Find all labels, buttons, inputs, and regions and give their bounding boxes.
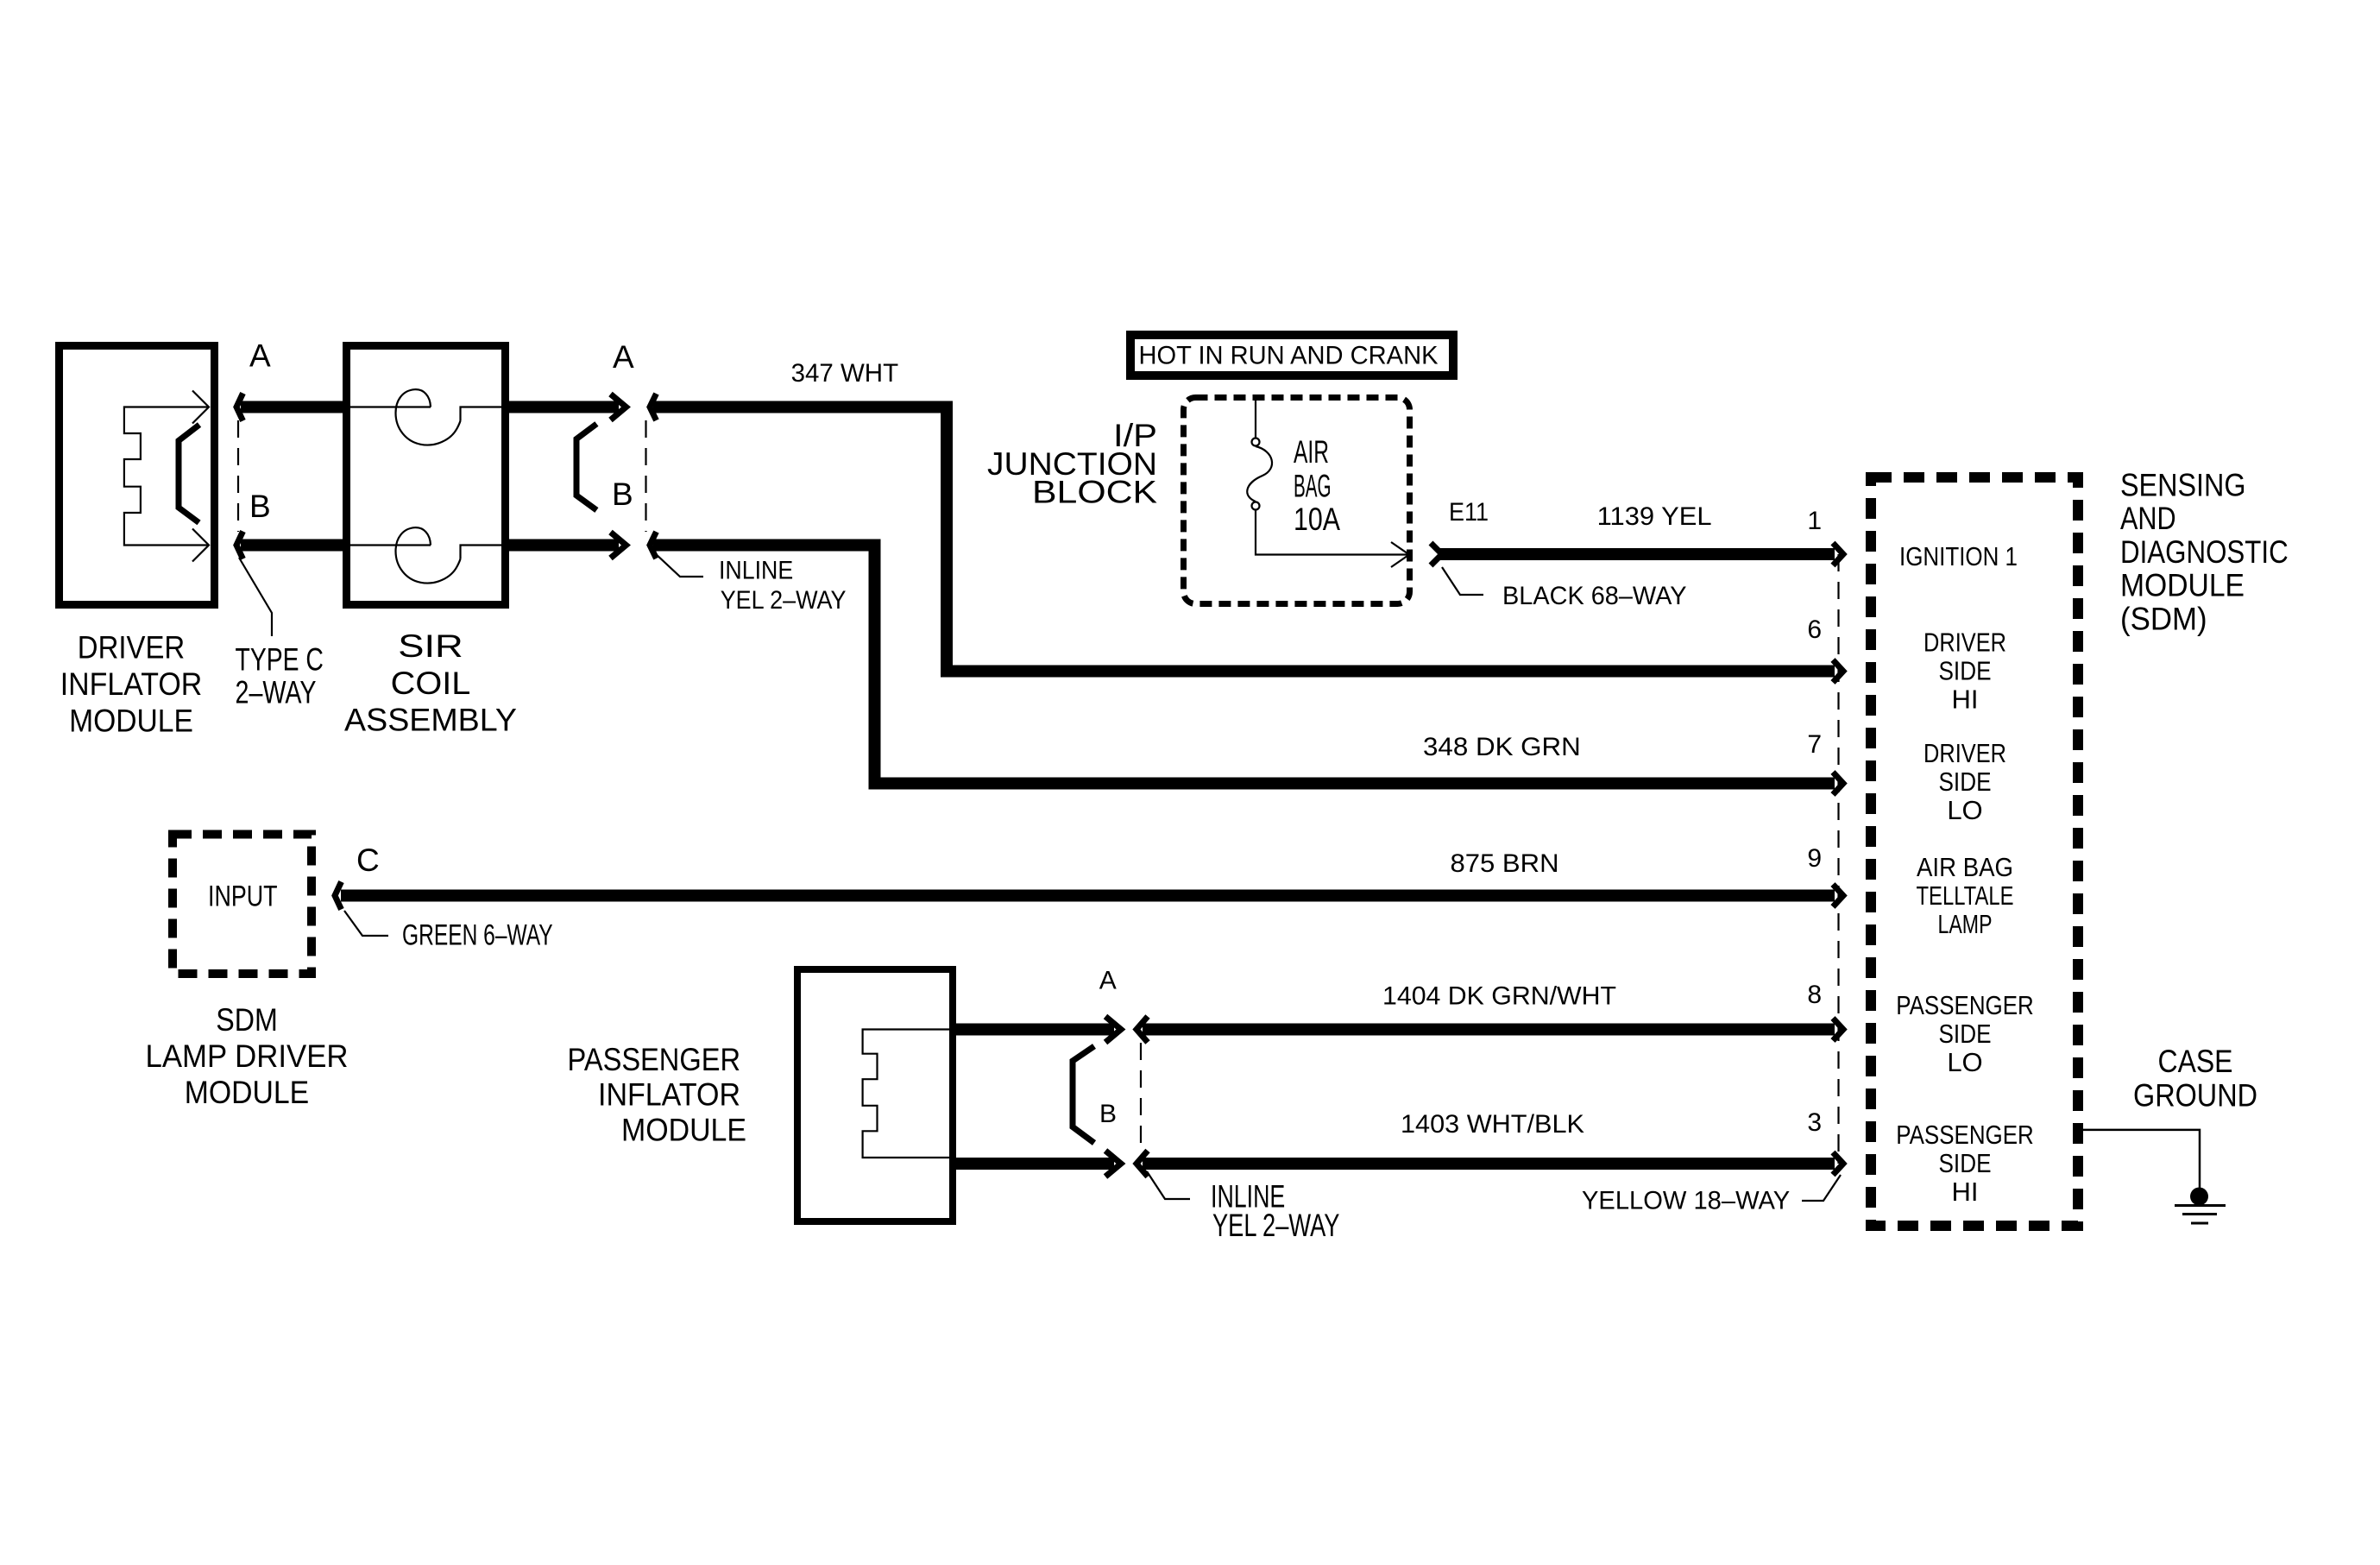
passenger inline chevron A left <box>1105 1017 1121 1043</box>
wire passenger B to inline <box>952 1158 1114 1170</box>
svg-text:348 DK GRN: 348 DK GRN <box>1423 733 1581 761</box>
twisted pair bracket passenger <box>1073 1046 1094 1143</box>
svg-text:MODULE: MODULE <box>2120 568 2245 603</box>
svg-text:ASSEMBLY: ASSEMBLY <box>344 703 517 738</box>
svg-text:CASE: CASE <box>2158 1044 2233 1079</box>
svg-text:MODULE: MODULE <box>621 1113 746 1148</box>
callout line black 68-way <box>1442 567 1483 595</box>
svg-text:LAMP: LAMP <box>1938 909 1993 939</box>
SDM lamp driver module dashed box <box>173 835 312 975</box>
svg-text:C: C <box>356 842 380 878</box>
SIR coil assembly box <box>347 346 506 605</box>
svg-text:LAMP DRIVER: LAMP DRIVER <box>146 1038 349 1074</box>
callout line yellow 18-way <box>1802 1175 1841 1201</box>
hot in run and crank box <box>1130 335 1453 375</box>
svg-text:IGNITION 1: IGNITION 1 <box>1899 541 2018 571</box>
wire driver A to SIR <box>241 401 343 413</box>
wire 1403 WHT/BLK <box>1143 1158 1835 1170</box>
svg-text:PASSENGER: PASSENGER <box>1896 990 2034 1020</box>
wire driver B to SIR <box>241 540 343 552</box>
SDM pin chevron 1 <box>1833 543 1843 565</box>
svg-text:B: B <box>249 489 271 524</box>
svg-text:AIR: AIR <box>1294 434 1329 470</box>
case ground wire <box>2078 1130 2200 1188</box>
SDM pin chevron 8 <box>1833 1019 1843 1041</box>
svg-text:7: 7 <box>1807 730 1822 759</box>
inline connector chevron A right <box>650 394 657 420</box>
svg-text:YELLOW 18–WAY: YELLOW 18–WAY <box>1582 1187 1790 1215</box>
svg-text:A: A <box>613 339 634 375</box>
SDM pin chevron 7 <box>1833 773 1843 795</box>
I/P junction block dashed box <box>1184 398 1410 604</box>
callout line inline yel driver <box>654 552 703 577</box>
fuse output wire <box>1256 510 1407 555</box>
svg-text:MODULE: MODULE <box>185 1075 309 1110</box>
SDM connector face dashed line <box>1837 554 1839 1164</box>
wire 875 BRN <box>341 890 1835 902</box>
svg-text:DRIVER: DRIVER <box>1924 738 2006 768</box>
svg-text:E11: E11 <box>1449 498 1489 527</box>
svg-text:SDM: SDM <box>216 1002 278 1038</box>
svg-text:SENSING: SENSING <box>2120 468 2246 503</box>
svg-text:AND: AND <box>2120 501 2176 536</box>
passenger inflator module box <box>797 969 953 1221</box>
callout line inline yel passenger <box>1147 1171 1190 1199</box>
ground bar 2 <box>2182 1213 2217 1215</box>
inline connector chevron B right <box>650 532 657 558</box>
fuse output arrow <box>1391 542 1409 567</box>
svg-text:DRIVER: DRIVER <box>78 630 185 666</box>
svg-text:YEL 2–WAY: YEL 2–WAY <box>721 586 847 615</box>
ground bar 3 <box>2191 1222 2208 1225</box>
svg-text:B: B <box>612 476 633 512</box>
wire 1139 YEL <box>1438 548 1835 560</box>
svg-text:1139 YEL: 1139 YEL <box>1597 502 1712 531</box>
svg-text:HOT IN RUN AND CRANK: HOT IN RUN AND CRANK <box>1139 342 1439 370</box>
svg-text:COIL: COIL <box>391 666 471 701</box>
svg-text:8: 8 <box>1807 981 1822 1009</box>
twisted pair bracket at SIR exit <box>576 424 596 510</box>
svg-text:PASSENGER: PASSENGER <box>568 1042 741 1077</box>
svg-text:6: 6 <box>1807 615 1822 644</box>
svg-text:HI: HI <box>1952 1177 1979 1207</box>
callout line green 6-way <box>344 911 388 936</box>
ground dot <box>2190 1188 2208 1206</box>
svg-text:DRIVER: DRIVER <box>1924 628 2006 658</box>
svg-text:YEL 2–WAY: YEL 2–WAY <box>1212 1208 1339 1243</box>
fuse feed wire <box>1255 397 1256 438</box>
svg-text:(SDM): (SDM) <box>2120 602 2207 637</box>
passenger inline chevron B left <box>1105 1151 1121 1177</box>
svg-text:GROUND: GROUND <box>2133 1078 2257 1114</box>
terminal chevron driver A <box>236 394 243 421</box>
callout line type C <box>239 558 272 636</box>
svg-text:INFLATOR: INFLATOR <box>60 666 203 702</box>
svg-text:A: A <box>1099 966 1117 994</box>
svg-text:INFLATOR: INFLATOR <box>598 1077 740 1113</box>
svg-text:SIDE: SIDE <box>1939 656 1992 686</box>
svg-text:AIR BAG: AIR BAG <box>1917 852 2013 882</box>
passenger connector castellation <box>863 1030 949 1158</box>
SIR coil upper <box>350 406 431 407</box>
passenger inline chevron A right <box>1136 1017 1148 1043</box>
svg-text:1403 WHT/BLK: 1403 WHT/BLK <box>1401 1110 1584 1139</box>
inline connector chevron B left <box>611 533 626 558</box>
svg-text:SIDE: SIDE <box>1939 1148 1992 1178</box>
SDM pin chevron 3 <box>1833 1152 1843 1175</box>
passenger inline dashed line <box>1140 1043 1142 1150</box>
fuse element squiggle <box>1247 446 1272 502</box>
svg-text:GREEN 6–WAY: GREEN 6–WAY <box>402 919 553 952</box>
svg-text:B: B <box>1099 1100 1117 1128</box>
driver inflator connector castellation <box>124 407 209 546</box>
svg-text:875 BRN: 875 BRN <box>1451 849 1559 878</box>
wire SIR A to inline <box>509 401 619 413</box>
svg-text:3: 3 <box>1807 1108 1822 1137</box>
SDM pin chevron 6 <box>1833 660 1843 683</box>
passenger inline chevron B right <box>1136 1151 1148 1177</box>
driver inflator module box <box>60 346 215 605</box>
svg-text:9: 9 <box>1807 844 1822 873</box>
svg-text:LO: LO <box>1947 1047 1982 1077</box>
inline connector dashed line <box>645 420 646 532</box>
svg-text:A: A <box>249 338 271 374</box>
svg-text:MODULE: MODULE <box>69 704 193 739</box>
svg-text:SIR: SIR <box>398 628 463 664</box>
svg-text:BLOCK: BLOCK <box>1032 475 1157 510</box>
svg-text:347 WHT: 347 WHT <box>791 359 899 388</box>
svg-text:INLINE: INLINE <box>719 557 793 585</box>
svg-text:INPUT: INPUT <box>208 880 278 913</box>
svg-text:2–WAY: 2–WAY <box>236 675 317 710</box>
svg-text:SIDE: SIDE <box>1939 767 1992 797</box>
fuse bottom terminal circle <box>1252 502 1260 510</box>
driver connector arrow B <box>192 529 209 562</box>
SDM dashed box <box>1871 477 2078 1226</box>
driver connector arrow A <box>192 391 209 424</box>
wire 348 DK GRN <box>653 546 1835 784</box>
wire 1404 DK GRN/WHT <box>1143 1024 1835 1036</box>
svg-text:1: 1 <box>1807 507 1822 535</box>
wire passenger A to inline <box>952 1024 1114 1036</box>
driver squib element <box>179 425 199 523</box>
svg-text:LO: LO <box>1947 795 1982 825</box>
type C connector dashed line <box>237 420 239 532</box>
svg-text:BAG: BAG <box>1294 469 1332 504</box>
svg-text:SIDE: SIDE <box>1939 1019 1992 1049</box>
svg-text:TYPE C: TYPE C <box>236 642 324 678</box>
wire 347 WHT <box>653 407 1835 672</box>
SDM pin chevron 9 <box>1833 885 1843 907</box>
inline connector chevron A left <box>611 394 626 420</box>
svg-text:DIAGNOSTIC: DIAGNOSTIC <box>2120 534 2289 570</box>
svg-text:PASSENGER: PASSENGER <box>1896 1120 2034 1150</box>
fuse top terminal circle <box>1252 439 1260 446</box>
E11 chevron <box>1431 543 1442 565</box>
terminal chevron driver B <box>236 532 243 559</box>
ground bar 1 <box>2175 1204 2226 1207</box>
SIR coil lower <box>350 544 431 546</box>
wire SIR B to inline <box>509 540 619 552</box>
svg-text:1404 DK GRN/WHT: 1404 DK GRN/WHT <box>1382 982 1616 1011</box>
svg-text:BLACK 68–WAY: BLACK 68–WAY <box>1502 582 1687 610</box>
svg-text:HI: HI <box>1952 685 1979 715</box>
svg-text:TELLTALE: TELLTALE <box>1917 880 2014 911</box>
svg-text:10A: 10A <box>1294 502 1340 537</box>
terminal chevron C <box>335 882 342 910</box>
